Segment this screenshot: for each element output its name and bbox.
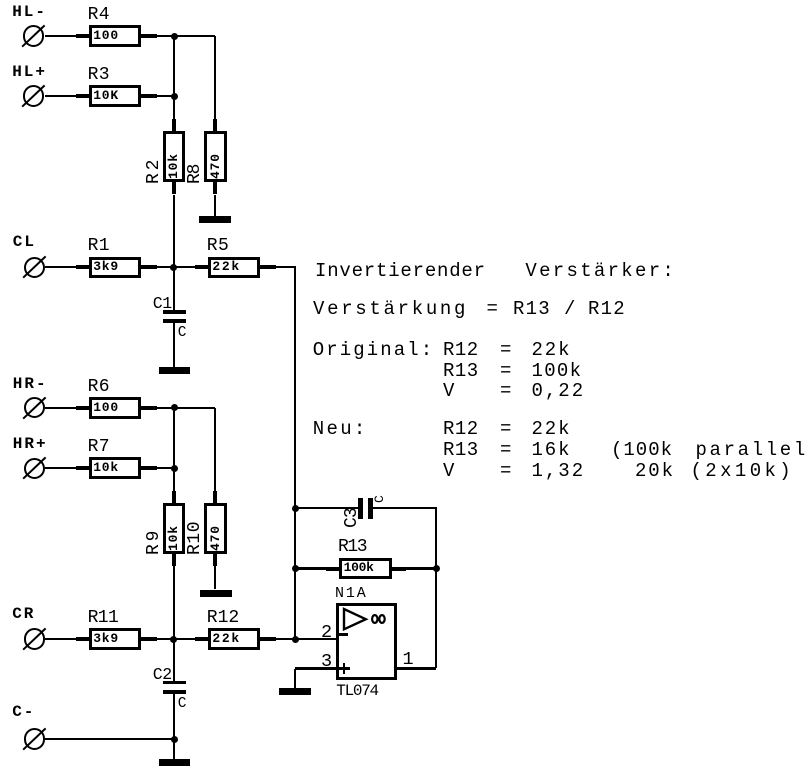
connector pad HL- — [23, 25, 44, 46]
connector pad CR — [24, 628, 45, 649]
junction node B (R3/R2) — [171, 93, 178, 100]
wire R6 to node C — [157, 407, 215, 409]
pin stub R4 left — [76, 34, 89, 38]
text line2 word1 — [313, 301, 468, 317]
text line8 eq — [500, 463, 511, 479]
resistor R4 — [89, 25, 141, 47]
text line6 eq — [500, 421, 511, 437]
text line3 22k — [532, 342, 572, 358]
text line6 R12 — [443, 421, 479, 437]
resistor R7 — [89, 457, 141, 479]
junction CL node — [170, 264, 177, 271]
wire C- pad to node — [45, 738, 174, 740]
wire CR pad to R11 — [45, 638, 76, 640]
text line3 R12 — [443, 342, 479, 358]
pin number 3 — [321, 654, 332, 669]
pin stub R4 right — [141, 34, 157, 38]
label TL074 — [336, 684, 378, 699]
pin stub R12 left — [195, 637, 208, 641]
wire CR node to R12 — [174, 638, 195, 640]
label R7 — [88, 440, 110, 454]
pin stub R5 right — [260, 265, 276, 269]
pin number 1 — [403, 652, 414, 667]
text line7 eq — [500, 442, 511, 458]
ground below R8 — [199, 216, 231, 223]
value C — [178, 697, 187, 711]
wire CL pad to R1 — [45, 266, 76, 268]
junction R13 tap — [292, 565, 299, 572]
pin stub R9 bottom — [172, 554, 176, 567]
pin stub R1 right — [141, 265, 157, 269]
capacitor C3 — [358, 498, 363, 519]
wire pin3 ground drop — [294, 669, 296, 689]
resistor R1 — [89, 257, 141, 279]
wire C- node to ground — [173, 739, 175, 759]
connector pad CL — [24, 257, 45, 278]
wire node C to node D to R9 — [173, 407, 175, 504]
label R8 — [188, 164, 202, 183]
wire R13 to feedback column — [406, 567, 436, 569]
wire node C down to R10 — [214, 408, 216, 503]
resistor R2 — [163, 131, 186, 182]
pin stub R8 bottom — [213, 182, 217, 195]
text line2 R12 — [588, 301, 626, 317]
pin stub R10 bottom — [213, 554, 217, 567]
pin stub R11 right — [141, 637, 157, 641]
junction node C (R6/R9) — [171, 404, 178, 411]
op-amp triangle — [342, 607, 370, 633]
label C2 — [153, 668, 172, 682]
text line1 word2 — [525, 263, 676, 279]
resistor R5 — [208, 257, 260, 279]
pin stub R9 top — [172, 491, 176, 504]
text line6 Neu — [313, 421, 368, 437]
wire HR- pad to R6 — [45, 407, 76, 409]
junction summing node (pin 2) — [292, 636, 299, 643]
pin stub R3 right — [141, 94, 157, 98]
text line8 1,32 — [532, 463, 586, 479]
capacitor C1 — [163, 310, 186, 313]
connector pad HL+ — [23, 85, 44, 106]
label R5 — [207, 239, 229, 253]
text line2 slash — [564, 301, 576, 317]
label R11 — [88, 611, 119, 625]
summing node column — [294, 266, 296, 639]
label R3 — [88, 68, 110, 82]
wire R4 to node A — [157, 35, 215, 37]
text line3 eq — [500, 342, 511, 358]
wire R5 to summing column — [276, 266, 295, 268]
connector pad HR+ — [24, 458, 45, 479]
label R9 — [147, 528, 161, 555]
resistor R12 — [208, 628, 260, 650]
pin stub R3 left — [76, 94, 89, 98]
label R13 — [338, 540, 366, 554]
value C — [178, 326, 187, 340]
label C3 — [345, 508, 359, 528]
junction CR node — [170, 636, 177, 643]
text line2 eq — [487, 301, 498, 317]
wire R9 to CR node — [173, 566, 175, 639]
label R10 — [188, 521, 202, 555]
text line2 R13 — [513, 301, 551, 317]
junction node D (R7/R9) — [171, 465, 178, 472]
label R12 — [207, 611, 239, 625]
junction C- node — [171, 736, 178, 743]
wire node to C3 — [295, 507, 358, 509]
wire R1 to CL node — [157, 266, 174, 268]
resistor R11 — [89, 628, 141, 650]
wire node A down to R8 — [214, 36, 216, 132]
ground at pin 3 — [279, 688, 311, 695]
wire R2 to CL node — [173, 195, 175, 268]
capacitor C2 — [163, 681, 186, 684]
label R2 — [147, 156, 161, 183]
pin stub R13 right — [392, 567, 406, 571]
pin stub R13 left — [326, 567, 339, 571]
junction node A (R4/R2) — [171, 33, 178, 40]
op-amp N1A box — [336, 603, 398, 680]
wire R3 to node B — [157, 95, 174, 97]
wire node to R13 — [295, 567, 326, 569]
text line7 R13 — [443, 442, 479, 458]
wire HL- pad to R4 — [45, 35, 77, 37]
text line8 paren — [691, 463, 795, 479]
text line3 Original — [313, 342, 435, 358]
text line5 0,22 — [532, 383, 586, 399]
net label HL- — [12, 5, 47, 19]
pin stub R10 top — [213, 491, 217, 504]
junction R13/output — [433, 565, 440, 572]
ground below R10 — [200, 590, 232, 597]
pin stub R8 top — [213, 119, 217, 132]
minus sign pin 2 — [339, 633, 349, 636]
text line5 V — [443, 383, 454, 399]
wire pin 3 to ground column — [295, 667, 336, 669]
text line4 eq — [500, 363, 511, 379]
wire CL node to C1 — [173, 267, 175, 310]
resistor R6 — [89, 397, 141, 419]
wire C3 to feedback column — [373, 507, 436, 509]
pin stub R12 right — [260, 637, 276, 641]
wire HR+ pad to R7 — [45, 467, 76, 469]
text line1 word1 — [315, 263, 486, 279]
text line5 eq — [500, 383, 511, 399]
resistor R8 — [204, 131, 227, 182]
feedback column — [435, 507, 437, 668]
pin stub R7 left — [76, 466, 89, 470]
text line4 R13 — [443, 363, 479, 379]
pin stub R2 top — [172, 119, 176, 132]
wire CL node to R5 — [174, 266, 195, 268]
wire CR node to C2 — [173, 639, 175, 681]
wire summing node to op-amp pin 2 — [295, 638, 336, 640]
net label CL — [13, 235, 36, 249]
net label HL+ — [12, 65, 47, 79]
net label C- — [12, 705, 35, 719]
pin stub R7 right — [141, 466, 157, 470]
junction C3 tap — [292, 505, 299, 512]
text line8 20k — [635, 463, 675, 479]
label C1 — [153, 297, 172, 311]
pin stub R6 left — [76, 406, 89, 410]
resistor R3 — [89, 85, 141, 107]
pin stub R5 left — [195, 265, 208, 269]
wire R8 to ground — [214, 195, 216, 217]
resistor R10 — [204, 503, 227, 554]
text line7 16k — [532, 442, 572, 458]
pin stub R6 right — [141, 406, 157, 410]
resistor R9 — [163, 503, 186, 554]
pin number 2 — [321, 625, 332, 640]
label N1A — [335, 586, 368, 601]
label R6 — [88, 380, 110, 394]
plus sign pin 3 — [339, 667, 350, 670]
value C of C3 — [374, 495, 385, 503]
wire pin 1 output — [396, 667, 436, 669]
wire R11 to CR node — [157, 638, 174, 640]
connector pad HR- — [24, 397, 45, 418]
pin stub R11 left — [76, 637, 89, 641]
label R4 — [88, 8, 110, 22]
wire C2 to C- node — [173, 694, 175, 739]
wire R7 to node D — [157, 467, 174, 469]
ground below C1 — [159, 367, 190, 374]
net label HR- — [13, 377, 48, 391]
net label CR — [12, 607, 35, 621]
text line6 22k — [532, 421, 572, 437]
pin stub R1 left — [76, 265, 89, 269]
text line8 V — [443, 463, 454, 479]
wire C1 to ground — [173, 323, 175, 367]
text line7 parallel — [696, 442, 808, 458]
connector pad C- — [24, 728, 45, 749]
pin stub R2 bottom — [172, 182, 176, 195]
net label HR+ — [13, 437, 48, 451]
wire R12 to summing node — [276, 638, 295, 640]
label R1 — [88, 239, 110, 253]
text line4 100k — [532, 363, 583, 379]
wire node A to node B to R2 — [173, 35, 175, 132]
wire R10 to ground — [214, 566, 216, 589]
text line7 paren — [611, 442, 673, 458]
wire HL+ pad to R3 — [45, 95, 77, 97]
op-amp infinity gain symbol — [369, 612, 389, 627]
ground below C2 — [159, 759, 190, 766]
resistor R13 — [339, 558, 392, 580]
